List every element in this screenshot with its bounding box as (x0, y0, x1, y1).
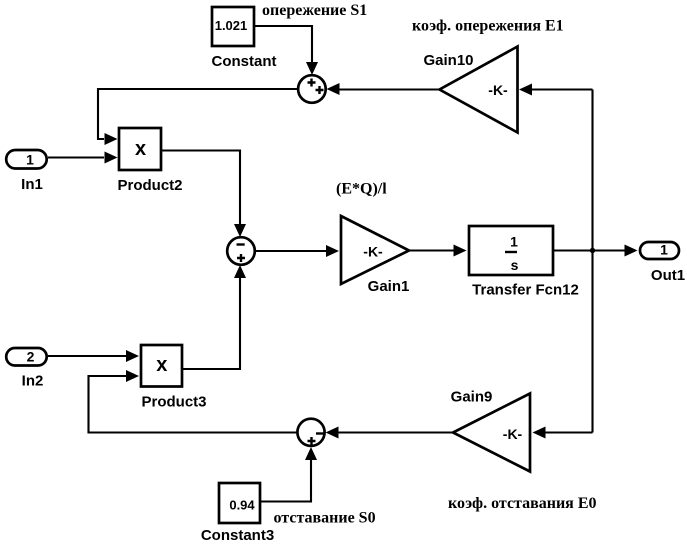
svg-text:Product3: Product3 (141, 394, 206, 411)
svg-text:In1: In1 (21, 176, 43, 193)
svg-text:1: 1 (26, 152, 34, 168)
svg-text:1: 1 (660, 242, 668, 258)
svg-text:опережение S1: опережение S1 (262, 2, 367, 19)
svg-text:(E*Q)/l: (E*Q)/l (336, 181, 387, 198)
svg-text:Product2: Product2 (117, 177, 182, 194)
svg-text:0.94: 0.94 (229, 498, 255, 513)
svg-text:s: s (511, 257, 519, 273)
svg-text:-K-: -K- (503, 426, 523, 442)
svg-text:отставание S0: отставание S0 (274, 510, 376, 527)
svg-text:-K-: -K- (488, 82, 508, 98)
svg-text:x: x (135, 138, 146, 160)
svg-text:коэф. отставания Е0: коэф. отставания Е0 (448, 495, 597, 512)
svg-text:Constant: Constant (212, 53, 277, 70)
svg-text:Gain1: Gain1 (368, 278, 410, 295)
svg-text:Gain9: Gain9 (451, 389, 493, 406)
svg-text:-K-: -K- (363, 244, 383, 260)
svg-text:1.021: 1.021 (215, 18, 248, 33)
svg-text:2: 2 (27, 349, 35, 365)
svg-text:Constant3: Constant3 (201, 527, 274, 544)
svg-text:1: 1 (510, 234, 518, 250)
svg-text:Gain10: Gain10 (423, 52, 473, 69)
svg-text:In2: In2 (22, 373, 44, 390)
svg-text:Out1: Out1 (651, 267, 685, 284)
svg-text:Transfer Fcn12: Transfer Fcn12 (472, 282, 579, 299)
svg-text:коэф. опережения Е1: коэф. опережения Е1 (412, 18, 564, 35)
svg-text:x: x (156, 354, 167, 376)
